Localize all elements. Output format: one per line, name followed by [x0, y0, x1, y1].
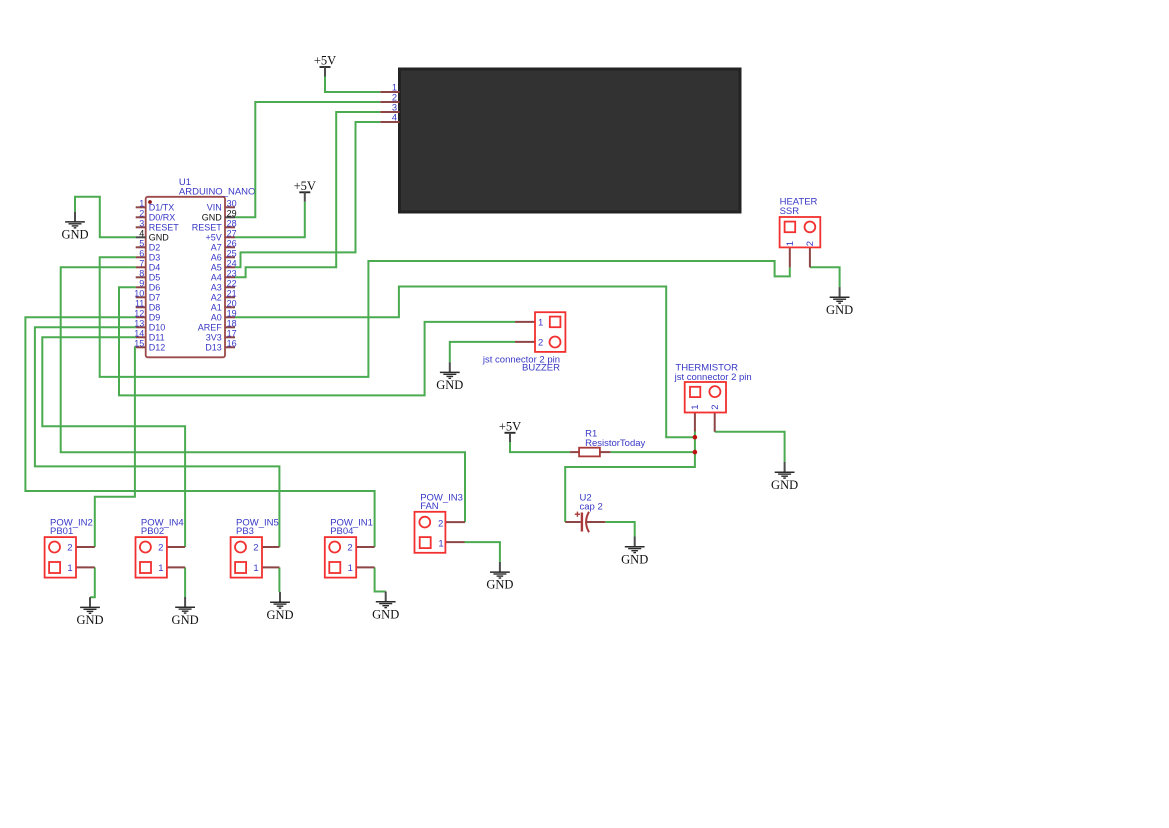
svg-text:2: 2	[158, 543, 163, 554]
svg-text:18: 18	[227, 319, 237, 329]
connector THERMISTOR jst connector 2 pin	[694, 413, 696, 432]
wire THERMISTOR pin1 node to capacitor U2	[565, 432, 695, 523]
wire PB04 pin1 to ground	[375, 567, 386, 591]
svg-text:2: 2	[347, 543, 352, 554]
wire U2 right to ground	[605, 522, 634, 537]
svg-text:BUZZER: BUZZER	[522, 362, 560, 373]
node junction A0/thermistor	[693, 435, 698, 440]
svg-text:ResistorToday: ResistorToday	[585, 438, 645, 449]
svg-text:2: 2	[67, 543, 72, 554]
svg-text:1: 1	[538, 318, 543, 329]
svg-text:A6: A6	[211, 253, 222, 263]
U1 pin 1 D1/TX	[136, 206, 146, 208]
svg-text:4: 4	[139, 229, 144, 239]
wire U1 pin9 D6 to BUZZER pin1	[119, 287, 515, 395]
ground HEATER	[830, 287, 850, 303]
svg-text:GND: GND	[486, 578, 513, 592]
svg-text:VIN: VIN	[207, 203, 222, 213]
wire PB3 pin1 to ground	[278, 567, 280, 592]
U1 pin 10 D7	[136, 296, 146, 298]
svg-text:jst connector 2 pin: jst connector 2 pin	[674, 372, 752, 383]
svg-text:GND: GND	[621, 552, 648, 566]
wire display pin3 to U1 pin23 A4	[235, 112, 380, 277]
svg-text:A2: A2	[211, 293, 222, 303]
svg-text:GND: GND	[266, 608, 293, 622]
svg-text:1: 1	[690, 404, 701, 409]
svg-text:7: 7	[139, 259, 144, 269]
svg-text:A5: A5	[211, 263, 222, 273]
svg-text:15: 15	[134, 339, 144, 349]
connector POW_IN2 PB01	[76, 546, 95, 548]
svg-text:28: 28	[227, 219, 237, 229]
svg-text:3: 3	[139, 219, 144, 229]
U1 pin 11 D8	[136, 306, 146, 308]
U1 pin 14 D11	[136, 336, 146, 338]
wire U1 pin6 D3 to HEATER pin1	[100, 257, 790, 377]
svg-text:3: 3	[392, 103, 397, 113]
resistor R1 ResistorToday	[570, 451, 579, 453]
wire THERMISTOR pin2 to ground	[715, 432, 785, 462]
U1 pin 23 A4	[225, 276, 235, 278]
connector POW_IN1 PB04	[356, 546, 374, 548]
U1 pin 12 D9	[136, 316, 146, 318]
U1 pin 4 GND	[136, 236, 146, 238]
svg-text:A1: A1	[211, 303, 222, 313]
U1 pin 17 3V3	[225, 336, 235, 338]
svg-text:cap 2: cap 2	[580, 502, 603, 513]
svg-text:11: 11	[135, 299, 144, 309]
U1 pin 6 D3	[136, 256, 146, 258]
svg-text:5: 5	[139, 239, 144, 249]
svg-text:D11: D11	[149, 333, 165, 343]
svg-text:D12: D12	[149, 343, 166, 353]
U1 pin 2 D0/RX	[136, 216, 146, 218]
display module DS1	[400, 69, 741, 212]
svg-text:1: 1	[348, 563, 353, 574]
svg-text:ARDUINO_NANO: ARDUINO_NANO	[179, 186, 256, 197]
svg-text:2: 2	[538, 338, 543, 349]
U1 pin 7 D4	[136, 266, 146, 268]
ground FAN	[490, 562, 510, 578]
svg-text:A7: A7	[211, 243, 222, 253]
svg-text:+5V: +5V	[206, 233, 222, 243]
svg-text:1: 1	[139, 199, 144, 209]
wire +5V to U1 pin27	[235, 202, 305, 238]
svg-text:GND: GND	[61, 228, 88, 242]
svg-text:A4: A4	[211, 273, 222, 283]
U1 pin 26 A7	[225, 246, 235, 248]
U1 pin 8 D5	[136, 276, 146, 278]
ground U2	[625, 537, 645, 553]
connector POW_IN3 FAN	[445, 521, 465, 523]
wire R1 right to node	[610, 451, 695, 453]
svg-text:9: 9	[139, 279, 144, 289]
svg-text:D0/RX: D0/RX	[149, 213, 176, 223]
wire U1 pin13 D10 to PB3 pin2	[35, 327, 280, 547]
display pin 2	[380, 101, 399, 103]
svg-text:+5V: +5V	[314, 54, 336, 68]
wire display pin2 to U1 pin29 GND	[235, 102, 380, 217]
svg-text:17: 17	[227, 329, 237, 339]
connector POW_IN5 PB3	[262, 546, 279, 548]
U1 pin 16 D13	[225, 346, 235, 348]
svg-text:GND: GND	[202, 213, 223, 223]
U1 pin 27 +5V	[225, 236, 235, 238]
wire HEATER pin2 to ground	[810, 267, 840, 287]
capacitor U2 cap 2	[565, 521, 581, 523]
svg-text:13: 13	[134, 319, 144, 329]
wire U1 pin19 A0 to THERMISTOR pin1	[235, 287, 695, 438]
svg-text:PB3: PB3	[236, 526, 254, 537]
wire +5V to R1 left	[510, 442, 570, 452]
svg-text:16: 16	[227, 339, 237, 349]
svg-text:D5: D5	[149, 273, 161, 283]
svg-text:12: 12	[134, 309, 144, 319]
svg-text:2: 2	[438, 519, 443, 530]
svg-text:A3: A3	[211, 283, 222, 293]
U1 pin 21 A2	[225, 296, 235, 298]
svg-text:GND: GND	[436, 378, 463, 392]
wire U1 pin4 GND to ground	[75, 197, 136, 238]
wire BUZZER pin2 to ground	[450, 342, 515, 362]
connector BUZZER jst connector 2 pin	[515, 321, 535, 323]
svg-text:1: 1	[438, 538, 443, 549]
svg-text:A0: A0	[211, 313, 222, 323]
svg-text:20: 20	[227, 299, 237, 309]
svg-text:4: 4	[392, 113, 397, 123]
svg-text:2: 2	[805, 241, 816, 246]
svg-text:GND: GND	[826, 303, 853, 317]
svg-text:D4: D4	[149, 263, 161, 273]
svg-text:14: 14	[134, 329, 144, 339]
svg-text:GND: GND	[771, 478, 798, 492]
display pin 1	[380, 91, 399, 93]
svg-text:2: 2	[392, 93, 397, 103]
svg-text:RESET: RESET	[149, 223, 180, 233]
svg-text:+5V: +5V	[499, 420, 521, 434]
wire U1 pin7 D4 to FAN pin2	[61, 267, 465, 522]
svg-text:D9: D9	[149, 313, 161, 323]
ground PB02	[175, 597, 195, 613]
svg-text:D10: D10	[149, 323, 166, 333]
U1 pin 13 D10	[136, 326, 146, 328]
svg-text:D6: D6	[149, 283, 161, 293]
svg-text:FAN: FAN	[420, 501, 439, 512]
U1 pin 29 GND	[225, 216, 235, 218]
svg-text:2: 2	[253, 543, 258, 554]
U1 pin 18 AREF	[225, 326, 235, 328]
U1 pin 15 D12	[136, 346, 146, 348]
microcontroller U1 ARDUINO_NANO body	[146, 197, 225, 357]
svg-text:PB04: PB04	[330, 526, 353, 537]
svg-text:RESET: RESET	[192, 223, 223, 233]
svg-text:21: 21	[227, 289, 237, 299]
ground PB04	[376, 592, 396, 608]
U1 pin 9 D6	[136, 286, 146, 288]
wire display pin4 to U1 pin24 A5	[235, 122, 380, 267]
svg-text:D8: D8	[149, 303, 161, 313]
svg-text:PB02: PB02	[141, 526, 164, 537]
wire +5V to display pin1	[325, 77, 380, 93]
svg-text:1: 1	[392, 83, 397, 93]
svg-text:2: 2	[139, 209, 144, 219]
svg-text:26: 26	[227, 239, 237, 249]
svg-text:GND: GND	[76, 613, 103, 627]
wire U1 pin14 D11 to PB02 pin2	[42, 337, 185, 547]
svg-text:D2: D2	[149, 243, 161, 253]
svg-text:2: 2	[710, 404, 721, 409]
svg-text:SSR: SSR	[780, 206, 800, 217]
svg-text:25: 25	[227, 249, 237, 259]
svg-text:6: 6	[139, 249, 144, 259]
ground PB01	[80, 597, 100, 613]
wire FAN pin1 to ground	[465, 542, 500, 562]
node junction R1/thermistor	[693, 450, 698, 455]
U1 pin-1 marker dot	[148, 200, 152, 204]
svg-text:10: 10	[134, 289, 144, 299]
wire PB01 pin1 to ground	[90, 567, 95, 597]
display pin 4	[380, 121, 399, 123]
connector POW_IN4 PB02	[167, 546, 185, 548]
wire PB02 pin1 to ground	[184, 567, 186, 597]
U1 pin 3 RESET	[136, 226, 146, 228]
svg-text:D13: D13	[205, 343, 222, 353]
connector HEATER SSR	[789, 247, 791, 267]
svg-text:D3: D3	[149, 253, 161, 263]
svg-text:D1/TX: D1/TX	[149, 203, 175, 213]
svg-text:8: 8	[139, 269, 144, 279]
ground THERMISTOR	[775, 462, 795, 478]
svg-text:1: 1	[253, 563, 258, 574]
svg-text:30: 30	[227, 199, 237, 209]
U1 pin 28 RESET	[225, 226, 235, 228]
display pin 3	[380, 111, 399, 113]
svg-text:1: 1	[158, 563, 163, 574]
U1 pin 30 VIN	[225, 206, 235, 208]
svg-text:GND: GND	[149, 233, 170, 243]
svg-text:+5V: +5V	[294, 179, 316, 193]
svg-text:22: 22	[227, 279, 237, 289]
svg-text:PB01: PB01	[50, 526, 73, 537]
svg-text:1: 1	[67, 563, 72, 574]
U1 pin 25 A6	[225, 256, 235, 258]
svg-text:AREF: AREF	[198, 323, 223, 333]
wire U1 pin12 D9 to PB04 pin2	[25, 317, 374, 547]
svg-text:3V3: 3V3	[206, 333, 222, 343]
svg-text:D7: D7	[149, 293, 161, 303]
wire U1 pin15 D12 to PB01 pin2	[95, 347, 136, 547]
svg-text:GND: GND	[172, 613, 199, 627]
U1 pin 20 A1	[225, 306, 235, 308]
ground BUZZER	[440, 362, 460, 378]
svg-text:1: 1	[785, 241, 796, 246]
U1 pin 22 A3	[225, 286, 235, 288]
ground PB3	[270, 592, 290, 608]
U1 pin 5 D2	[136, 246, 146, 248]
svg-text:GND: GND	[372, 607, 399, 621]
ground U1 pin4	[65, 212, 85, 228]
U1 pin 19 A0	[225, 316, 235, 318]
U1 pin 24 A5	[225, 266, 235, 268]
